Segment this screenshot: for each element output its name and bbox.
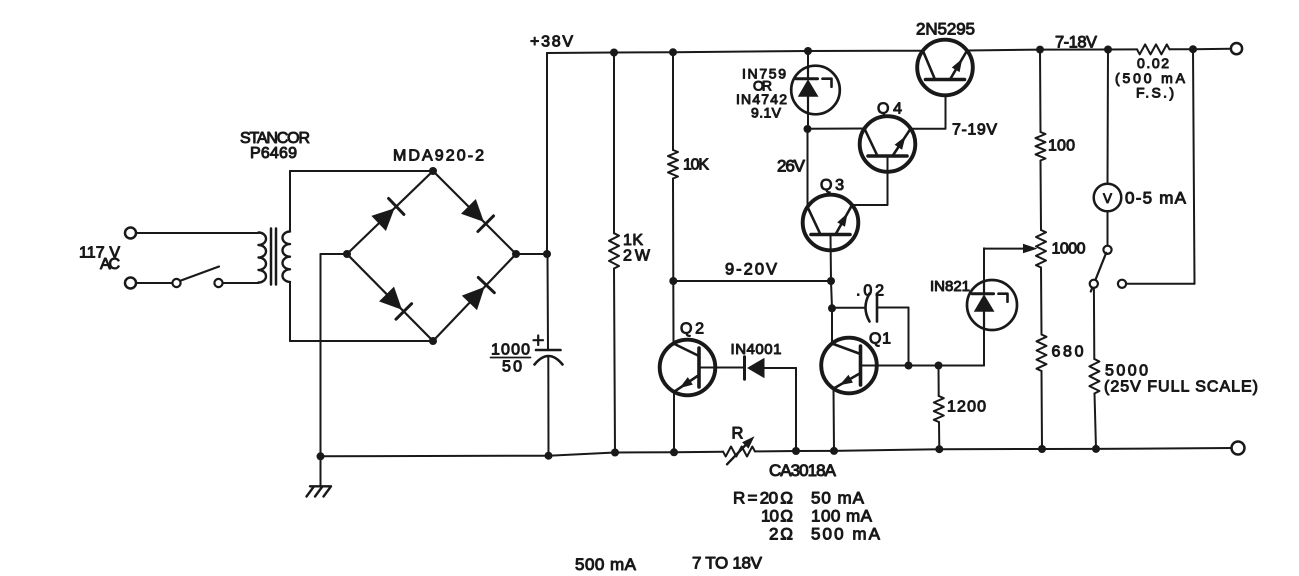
svg-text:7 TO 18V: 7 TO 18V: [692, 554, 763, 573]
svg-text:Q1: Q1: [869, 331, 891, 348]
svg-text:0.02: 0.02: [1137, 55, 1169, 71]
svg-text:Q2: Q2: [680, 321, 704, 338]
svg-text:.02: .02: [856, 283, 884, 300]
svg-text:2W: 2W: [623, 248, 651, 265]
svg-text:1000: 1000: [491, 342, 530, 359]
svg-text:F.S.): F.S.): [1136, 85, 1174, 101]
svg-text:680: 680: [1052, 344, 1084, 361]
svg-text:10 Ω: 10 Ω: [761, 507, 793, 526]
svg-text:500 mA: 500 mA: [811, 525, 881, 544]
svg-text:7-19V: 7-19V: [952, 122, 997, 139]
svg-text:100: 100: [1048, 138, 1075, 155]
svg-text:R: R: [732, 425, 744, 443]
svg-text:2N5295: 2N5295: [916, 20, 975, 39]
svg-text:(500 mA: (500 mA: [1115, 70, 1186, 86]
svg-text:50 mA: 50 mA: [811, 489, 865, 508]
svg-text:R = 20 Ω: R = 20 Ω: [733, 489, 793, 508]
svg-text:AC: AC: [100, 256, 120, 273]
svg-text:26V: 26V: [777, 157, 806, 176]
svg-text:P6469: P6469: [250, 145, 297, 162]
svg-text:50: 50: [502, 359, 522, 376]
svg-text:0-5 mA: 0-5 mA: [1125, 189, 1187, 208]
svg-text:1200: 1200: [947, 399, 986, 416]
svg-text:9-20V: 9-20V: [725, 261, 777, 279]
svg-text:Q3: Q3: [820, 177, 844, 194]
svg-text:IN4001: IN4001: [731, 341, 782, 358]
svg-text:7-18V: 7-18V: [1055, 34, 1097, 52]
svg-text:1000: 1000: [1052, 241, 1086, 258]
svg-text:100 mA: 100 mA: [811, 507, 873, 526]
svg-text:500 mA: 500 mA: [575, 555, 637, 574]
svg-text:CA3018A: CA3018A: [769, 461, 837, 480]
svg-text:1K: 1K: [623, 232, 643, 249]
svg-text:2 Ω: 2 Ω: [769, 525, 793, 544]
svg-text:9.1V: 9.1V: [751, 105, 782, 121]
svg-text:V: V: [1103, 191, 1112, 206]
svg-text:(25V FULL SCALE): (25V FULL SCALE): [1104, 379, 1258, 396]
svg-text:10K: 10K: [683, 157, 709, 174]
svg-text:+38V: +38V: [530, 34, 573, 51]
svg-text:5000: 5000: [1105, 363, 1148, 380]
svg-text:IN821: IN821: [930, 278, 970, 295]
svg-text:MDA920-2: MDA920-2: [393, 148, 484, 165]
